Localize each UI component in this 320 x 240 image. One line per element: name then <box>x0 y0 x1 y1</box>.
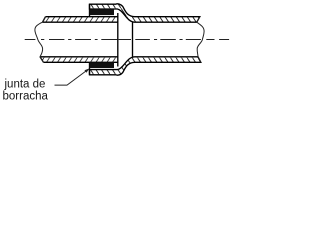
left break line <box>35 17 46 63</box>
leader arrowhead <box>85 68 90 73</box>
svg-text:junta de: junta de <box>4 78 46 90</box>
bell inner shoulder edge <box>132 22 134 57</box>
rubber gasket bottom (black) <box>90 62 115 68</box>
leader line <box>55 70 88 85</box>
left pipe top wall (section) <box>43 17 118 23</box>
right break line <box>197 17 204 63</box>
rubber gasket top (black) <box>90 9 115 15</box>
left pipe spigot end face <box>117 13 119 67</box>
svg-text:borracha: borracha <box>3 90 49 102</box>
right pipe bell top (section) <box>90 4 200 22</box>
centerline <box>25 39 229 41</box>
right pipe bell bottom (section) <box>90 57 201 75</box>
left pipe bottom wall (section) <box>40 57 118 63</box>
